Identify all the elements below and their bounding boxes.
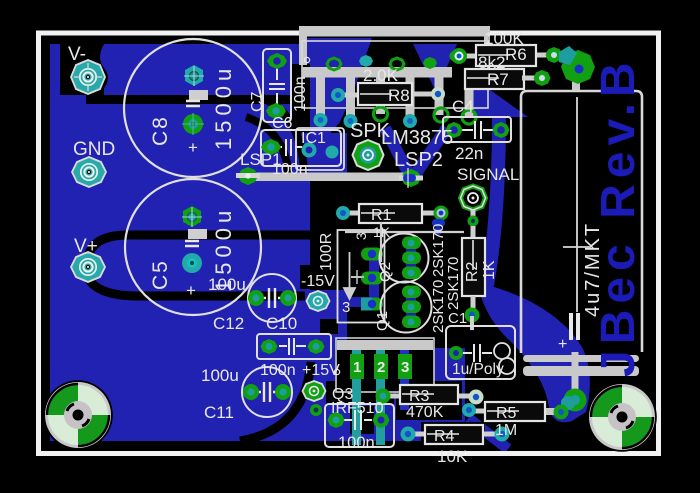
pad V- <box>71 60 105 94</box>
transistor Q2 pads <box>402 237 421 280</box>
resistor R6 body <box>476 45 536 66</box>
transistor Q2 outline <box>380 234 429 283</box>
resistor R3 pad left <box>376 389 391 404</box>
resistor R8 leads <box>336 94 438 95</box>
resistor R3 pad right <box>469 390 484 405</box>
IC1 box outline <box>296 128 344 170</box>
header pin 2 pad <box>374 354 388 379</box>
pour left region <box>50 44 310 441</box>
svg-text:R5: R5 <box>496 405 517 422</box>
svg-text:2.0K: 2.0K <box>363 66 399 85</box>
trace to bottom-right pad vertical <box>572 352 579 398</box>
pin1 mark C7 <box>304 57 309 62</box>
resistor R2 pad bottom <box>465 308 480 323</box>
svg-text:100u: 100u <box>201 366 239 385</box>
pour bottom-middle region <box>310 348 465 441</box>
clearance blob around V- pad <box>60 44 108 95</box>
svg-text:R3: R3 <box>409 388 430 405</box>
svg-text:3: 3 <box>342 299 350 316</box>
capacitor 100n bottom pad 2 <box>373 412 390 428</box>
capacitor C10 pad 2 <box>308 339 325 354</box>
capacitor C7 pad 1 <box>267 53 287 69</box>
op-amp LM3875 pin1 pad <box>314 113 328 127</box>
resistor R6 leads <box>458 55 554 56</box>
op-amp LM3875 pad 4 <box>359 55 373 67</box>
svg-text:R2: R2 <box>464 261 481 282</box>
svg-text:22n: 22n <box>455 144 483 163</box>
svg-text:100u: 100u <box>208 275 246 294</box>
top trace bus under pins <box>302 67 452 78</box>
capacitor 4u7/MKT outline <box>521 91 642 353</box>
svg-text:V+: V+ <box>74 236 98 257</box>
capacitor C4 pad 1 <box>446 122 463 138</box>
pad bottom-right big <box>554 389 587 420</box>
pour trace buffer to -15V <box>330 297 375 307</box>
pour wedge top-right of pins <box>413 44 457 92</box>
header 123 outline <box>336 338 434 392</box>
capacitor C12 pad 1 <box>248 290 264 306</box>
svg-text:+: + <box>188 138 198 157</box>
svg-text:2: 2 <box>377 359 385 376</box>
svg-text:1K: 1K <box>481 260 498 280</box>
trace arc right of C8 lower <box>246 117 289 180</box>
svg-text:R4: R4 <box>434 428 455 445</box>
board outline <box>39 33 659 454</box>
capacitor 1u/Poly pad 2 <box>494 343 515 374</box>
mounting hole bottom-left <box>43 380 113 450</box>
svg-text:LSP2: LSP2 <box>394 149 443 171</box>
pad -15V <box>307 291 330 311</box>
pin 1 trace <box>316 70 325 120</box>
svg-text:V-: V- <box>68 44 86 65</box>
svg-text:+: + <box>186 281 196 300</box>
pin 9 trace <box>435 70 444 115</box>
capacitor C6 pad 1 <box>261 139 281 155</box>
capacitor 100n bottom symbol <box>344 410 372 430</box>
svg-text:R7: R7 <box>487 70 509 89</box>
terminal SPK pad <box>353 140 384 170</box>
resistor R1 body <box>359 204 422 223</box>
thin trace R1 area horizontal <box>345 231 464 233</box>
resistor R1 pad left <box>336 206 350 220</box>
trace arc right of C8 upper <box>258 96 304 172</box>
svg-text:JBec Rev.B: JBec Rev.B <box>592 56 645 377</box>
svg-text:R1: R1 <box>371 207 392 224</box>
IC1 pad <box>326 146 339 159</box>
capacitor C11 pad 2 <box>275 384 291 400</box>
header 123 top bar <box>337 340 433 350</box>
trace R2 pad to 1u/Poly <box>470 316 474 330</box>
capacitor 1u/Poly symbol <box>462 344 492 362</box>
op-amp LM3875 pin9 pad <box>434 108 448 122</box>
pour band from C4 down to lobe <box>486 118 499 290</box>
resistor R8 pad right <box>431 87 445 101</box>
capacitor 4u7/MKT bottom bar 2 <box>523 366 639 376</box>
svg-text:1500u: 1500u <box>211 64 236 150</box>
resistor R3 body <box>400 385 458 404</box>
svg-text:C6: C6 <box>272 115 293 132</box>
capacitor C11 plates <box>256 382 278 402</box>
buffer arrow symbol <box>344 252 362 299</box>
svg-text:-15V: -15V <box>301 273 335 290</box>
svg-text:C7: C7 <box>249 91 266 112</box>
resistor R5 pad left <box>462 403 476 417</box>
capacitor C4 outline <box>443 117 511 142</box>
pad V+ <box>71 252 105 282</box>
resistor R1 leads <box>341 211 440 216</box>
capacitor 100n bottom pad 1 <box>328 412 345 428</box>
pour big right lobe <box>479 283 590 422</box>
capacitor C6 symbol <box>264 139 302 156</box>
capacitor C11 pad 1 <box>243 384 259 400</box>
trace R5 to pad <box>543 408 567 415</box>
transistor Q1 outline <box>381 282 432 333</box>
black patch Q3 IRF510 <box>326 381 394 404</box>
op-amp LM3875 pin5 pad <box>374 107 388 121</box>
capacitor C5 plate marks <box>185 241 199 246</box>
svg-text:100R: 100R <box>318 233 335 271</box>
svg-text:C4: C4 <box>452 97 474 116</box>
svg-text:IRF510: IRF510 <box>331 400 384 417</box>
capacitor C12 plates <box>262 288 282 308</box>
pad top-right power <box>559 46 595 84</box>
svg-text:10K: 10K <box>437 447 468 466</box>
svg-text:IC1: IC1 <box>301 130 326 147</box>
black patch 100n cap body <box>350 406 374 434</box>
capacitor C8 outline <box>124 39 262 177</box>
op-amp LM3875 pin11 pad <box>462 110 476 124</box>
capacitor C7 outline <box>263 49 291 122</box>
capacitor 1u/Poly pad 1 <box>449 346 463 360</box>
svg-text:R6: R6 <box>505 45 527 64</box>
resistor R2 body <box>462 238 485 296</box>
svg-text:1u/Poly: 1u/Poly <box>452 361 504 378</box>
capacitor C6 outline <box>261 130 341 166</box>
pin 5 trace <box>376 70 385 114</box>
black patch R4 <box>421 422 485 442</box>
svg-text:470K: 470K <box>406 404 444 421</box>
resistor R1 pad right <box>432 206 449 236</box>
buffer crosshair <box>351 270 364 284</box>
svg-text:SIGNAL: SIGNAL <box>457 165 519 184</box>
trace V- horizontal <box>86 95 310 104</box>
capacitor 4u7/MKT center line <box>563 97 591 312</box>
resistor R8 pad left <box>331 88 345 102</box>
header pin 3 pad <box>398 354 412 379</box>
svg-text:1M: 1M <box>495 422 517 439</box>
LM3875 package outline <box>302 41 488 108</box>
terminal LSP2 pad <box>399 168 423 188</box>
pour top-left wedge near LM3875 <box>300 38 372 160</box>
svg-text:LM3875: LM3875 <box>381 127 453 149</box>
resistor R5 body <box>485 402 545 421</box>
resistor R2 lead top <box>471 226 476 240</box>
capacitor C8 polarity mark <box>189 90 208 100</box>
capacitor 4u7/MKT plates <box>571 313 578 340</box>
svg-text:3: 3 <box>401 359 409 376</box>
resistor R3 leads <box>382 394 474 399</box>
capacitor 1u/Poly outline <box>446 326 515 379</box>
resistor R4 body <box>425 425 483 444</box>
capacitor C8 pad - <box>182 113 204 135</box>
transistor Q1 pads <box>402 286 421 329</box>
svg-text:2SK170: 2SK170 <box>445 257 462 310</box>
black region 123 header <box>335 349 434 392</box>
pad +15V <box>303 381 326 401</box>
svg-text:3: 3 <box>353 232 369 240</box>
svg-text:R8: R8 <box>388 86 410 105</box>
pin 3 trace <box>346 70 355 121</box>
thin trace R1 down <box>380 222 382 262</box>
capacitor C5 pad - <box>182 253 202 273</box>
svg-text:+: + <box>558 336 567 353</box>
header pin1 mark <box>334 369 339 374</box>
tab bar left stub <box>299 26 307 65</box>
capacitor C6 pad 2 <box>302 143 317 158</box>
resistor R6 pad left <box>451 48 467 64</box>
black column right of C7 <box>292 64 310 133</box>
terminal LSP1 <box>236 167 260 185</box>
capacitor C5 outline <box>125 179 261 315</box>
capacitor C4 pad 2 <box>493 122 510 138</box>
capacitor C11 outline <box>242 367 292 417</box>
trace V+ to C5 <box>88 235 318 258</box>
header pin 1 pad <box>350 354 364 379</box>
terminal SIGNAL pad <box>461 186 486 210</box>
svg-text:Q2: Q2 <box>377 262 394 282</box>
svg-text:100n: 100n <box>260 362 296 379</box>
capacitor C10 outline <box>257 334 331 359</box>
pin 11 trace <box>465 70 474 117</box>
op-amp LM3875 pad 8 <box>423 57 437 69</box>
op-amp LM3875 pin3 pad <box>344 114 358 128</box>
tab bar right stub <box>484 36 488 61</box>
mounting hole bottom-right <box>587 382 657 452</box>
pour wedge under R7 <box>465 72 528 117</box>
capacitor 100n bottom outline <box>325 404 394 447</box>
capacitor C8 pad + <box>184 65 204 86</box>
pour trace R4 diagonal <box>468 418 508 449</box>
svg-text:100n: 100n <box>338 434 375 452</box>
resistor R5 lead left <box>468 409 487 414</box>
more layers appended below <box>252 26 580 415</box>
pour lower-left strip <box>310 290 347 441</box>
capacitor C12 outline <box>248 274 296 322</box>
capacitor C5 pad + <box>182 206 202 227</box>
SIGNAL small pad <box>468 216 479 227</box>
trace V+ lower <box>88 278 305 296</box>
svg-text:1: 1 <box>353 359 361 376</box>
buffer pads column <box>361 248 383 311</box>
black notch below buffer <box>320 319 338 334</box>
resistor R4 pad left <box>401 427 416 442</box>
pad GND <box>72 157 106 187</box>
svg-text:C10: C10 <box>266 314 297 333</box>
svg-text:1K: 1K <box>373 224 391 240</box>
SIGNAL lead down <box>471 210 476 240</box>
resistor R8 body <box>358 83 412 105</box>
trace stem of top-right pad <box>572 64 580 92</box>
capacitor C10 pad 1 <box>261 339 278 354</box>
transistor Q3 pad <box>310 404 322 416</box>
black patch R3 <box>396 381 462 420</box>
svg-text:C8: C8 <box>149 115 172 146</box>
op-amp LM3875 pad 6 <box>390 58 404 70</box>
svg-text:C12: C12 <box>213 314 244 333</box>
resistor R7 pad right <box>534 70 551 86</box>
svg-text:C5: C5 <box>149 259 172 290</box>
op-amp LM3875 pad 10 <box>449 50 463 62</box>
svg-text:100n: 100n <box>292 76 309 112</box>
header pin1 trace <box>352 350 361 445</box>
svg-text:GND: GND <box>73 139 115 160</box>
capacitor C12 pad 2 <box>280 290 296 306</box>
capacitor C10 symbol <box>279 338 306 355</box>
svg-text:Q1: Q1 <box>374 311 391 331</box>
svg-text:C11: C11 <box>204 403 234 422</box>
capacitor C7 symbol <box>269 68 285 104</box>
header pin2 trace <box>376 350 385 445</box>
pour wedge to LSP2 right <box>412 128 447 179</box>
black patch -15V label <box>300 265 314 289</box>
resistor R7 lead right <box>522 76 542 81</box>
resistor R4 leads <box>406 432 500 437</box>
LM3875 heatsink tab bar <box>299 26 490 37</box>
pour IC1 area <box>310 133 347 180</box>
header pin3 trace <box>400 350 409 410</box>
buffer box outline <box>338 230 385 323</box>
capacitor C7 pad 2 <box>266 103 286 119</box>
resistor R4 pad right <box>495 427 510 442</box>
resistor R2 lead bottom <box>471 296 476 313</box>
pour wedge to LSP2 left <box>385 128 411 178</box>
capacitor 4u7/MKT bottom bar 1 <box>523 355 639 362</box>
resistor R6 pad right <box>546 47 563 63</box>
svg-text:C1: C1 <box>448 310 467 327</box>
capacitor C8 plate marks <box>186 101 200 106</box>
pin 7 trace <box>406 70 415 121</box>
capacitor C4 symbol <box>462 121 494 139</box>
capacitor C5 polarity mark <box>188 229 207 239</box>
svg-text:LSP1: LSP1 <box>240 150 282 169</box>
trace arc bottom-left to C11 <box>240 362 311 441</box>
resistor R7 body <box>465 69 524 89</box>
op-amp LM3875 pin7 pad <box>403 114 417 128</box>
trace LSP2 horizontal <box>252 173 412 182</box>
black region 100R -15V <box>310 180 347 290</box>
op-amp LM3875 pad 2 <box>327 58 341 70</box>
